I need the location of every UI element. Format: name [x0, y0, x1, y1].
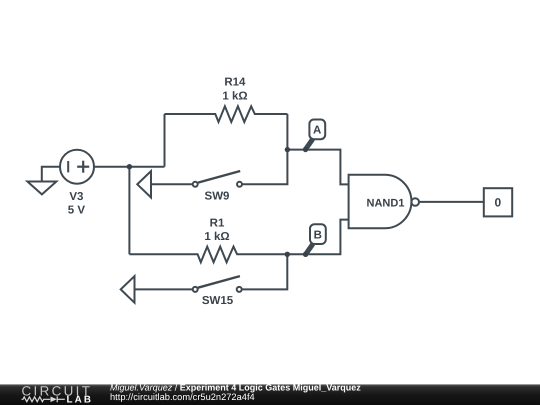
svg-text:SW9: SW9 [205, 191, 230, 203]
svg-text:1 kΩ: 1 kΩ [222, 91, 247, 103]
svg-text:LAB: LAB [67, 395, 92, 405]
svg-text:0: 0 [494, 196, 501, 210]
svg-text:A: A [313, 125, 321, 137]
svg-text:http://circuitlab.com/cr5u2n27: http://circuitlab.com/cr5u2n272a4f4 [110, 392, 255, 402]
svg-text:V3: V3 [69, 191, 83, 203]
svg-text:5 V: 5 V [68, 205, 86, 217]
svg-text:B: B [314, 230, 322, 242]
svg-text:1 kΩ: 1 kΩ [204, 231, 229, 243]
svg-text:NAND1: NAND1 [367, 197, 405, 209]
svg-text:Miguel.Varquez / Experiment 4: Miguel.Varquez / Experiment 4 Logic Gate… [110, 383, 361, 393]
svg-text:SW15: SW15 [202, 295, 234, 307]
svg-text:R14: R14 [224, 77, 246, 89]
svg-text:R1: R1 [210, 218, 225, 230]
